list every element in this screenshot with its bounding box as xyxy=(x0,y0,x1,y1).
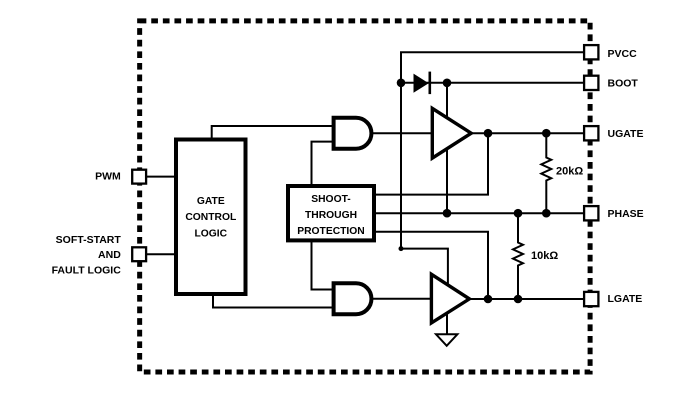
pin LGATE xyxy=(584,292,598,306)
wire AND2 output to lower driver input xyxy=(372,298,433,300)
wire AND1 output to upper driver input xyxy=(372,132,433,134)
wire shoot-through bottom to AND2 upper input xyxy=(312,241,334,290)
resistor 10k between PHASE and LGATE xyxy=(513,213,523,299)
junction PHASE / 10k top xyxy=(514,209,523,218)
svg-text:UGATE: UGATE xyxy=(608,128,644,140)
svg-text:SOFT-START: SOFT-START xyxy=(56,234,122,246)
wire PVCC rail: PVCC pin left then down xyxy=(401,52,584,248)
wire LGATE output line xyxy=(468,298,584,300)
svg-text:SHOOT-: SHOOT- xyxy=(311,194,351,205)
svg-text:LOGIC: LOGIC xyxy=(194,228,227,239)
wire BOOT rail into upper driver top xyxy=(446,83,448,117)
junction UGATE output / feedback xyxy=(484,129,493,138)
junction PHASE / upper rail xyxy=(443,209,452,218)
ground symbol xyxy=(436,334,457,346)
svg-text:FAULT LOGIC: FAULT LOGIC xyxy=(52,265,122,277)
svg-text:THROUGH: THROUGH xyxy=(305,210,357,221)
junction PHASE / 20k bottom xyxy=(542,209,551,218)
junction diode cathode / BOOT xyxy=(443,79,452,88)
svg-text:PVCC: PVCC xyxy=(608,48,638,60)
lower gate driver buffer xyxy=(431,274,469,323)
wire PVCC rail elbow to lower driver top rail xyxy=(401,249,448,285)
svg-text:PWM: PWM xyxy=(95,170,121,182)
pin UGATE xyxy=(584,126,598,140)
junction UGATE / 20k top xyxy=(542,129,551,138)
diode boot xyxy=(414,74,429,93)
pin PHASE xyxy=(584,206,598,220)
upper gate driver buffer xyxy=(432,108,471,158)
svg-text:BOOT: BOOT xyxy=(608,78,639,90)
svg-text:20kΩ: 20kΩ xyxy=(556,165,583,177)
svg-text:GATE: GATE xyxy=(197,196,225,207)
wire SOFT-START pin to gate control logic xyxy=(147,253,176,255)
pin PWM xyxy=(132,170,146,184)
svg-text:LGATE: LGATE xyxy=(608,293,643,305)
shoot-through protection block xyxy=(288,186,374,240)
gate control logic block xyxy=(176,140,246,295)
svg-text:PROTECTION: PROTECTION xyxy=(297,226,365,237)
wire LGATE feedback to shoot-through protection xyxy=(375,232,488,299)
junction LGATE / feedback xyxy=(484,295,493,304)
wire UGATE feedback to shoot-through protection xyxy=(375,133,488,194)
wire gate control bottom output to AND2 lower input xyxy=(213,295,333,308)
wire gate control top output to AND1 upper input xyxy=(212,126,333,139)
wire BOOT line xyxy=(401,82,584,84)
svg-text:AND: AND xyxy=(98,249,121,261)
svg-text:10kΩ: 10kΩ xyxy=(531,250,558,262)
pin BOOT xyxy=(584,76,598,90)
wire PWM pin to gate control logic xyxy=(147,176,176,178)
pin PVCC xyxy=(584,45,598,59)
wire lower driver bottom to ground xyxy=(446,312,448,337)
AND gate lower xyxy=(334,283,372,314)
junction LGATE / 10k bottom xyxy=(514,295,523,304)
wire UGATE output line xyxy=(471,132,585,134)
wire upper driver bottom rail to PHASE xyxy=(446,149,448,214)
resistor 20k between UGATE and PHASE xyxy=(541,133,551,213)
wire shoot-through top to AND1 lower input xyxy=(312,142,334,185)
corner node PVCC rail elbow xyxy=(399,246,404,251)
IC boundary dashed border xyxy=(140,21,590,372)
svg-text:PHASE: PHASE xyxy=(608,208,644,220)
svg-text:CONTROL: CONTROL xyxy=(185,212,236,223)
wire PHASE line xyxy=(375,212,584,214)
junction BOOT/PVCC-rail xyxy=(397,79,406,88)
pin SOFT-START xyxy=(132,247,146,261)
AND gate upper xyxy=(334,118,372,149)
